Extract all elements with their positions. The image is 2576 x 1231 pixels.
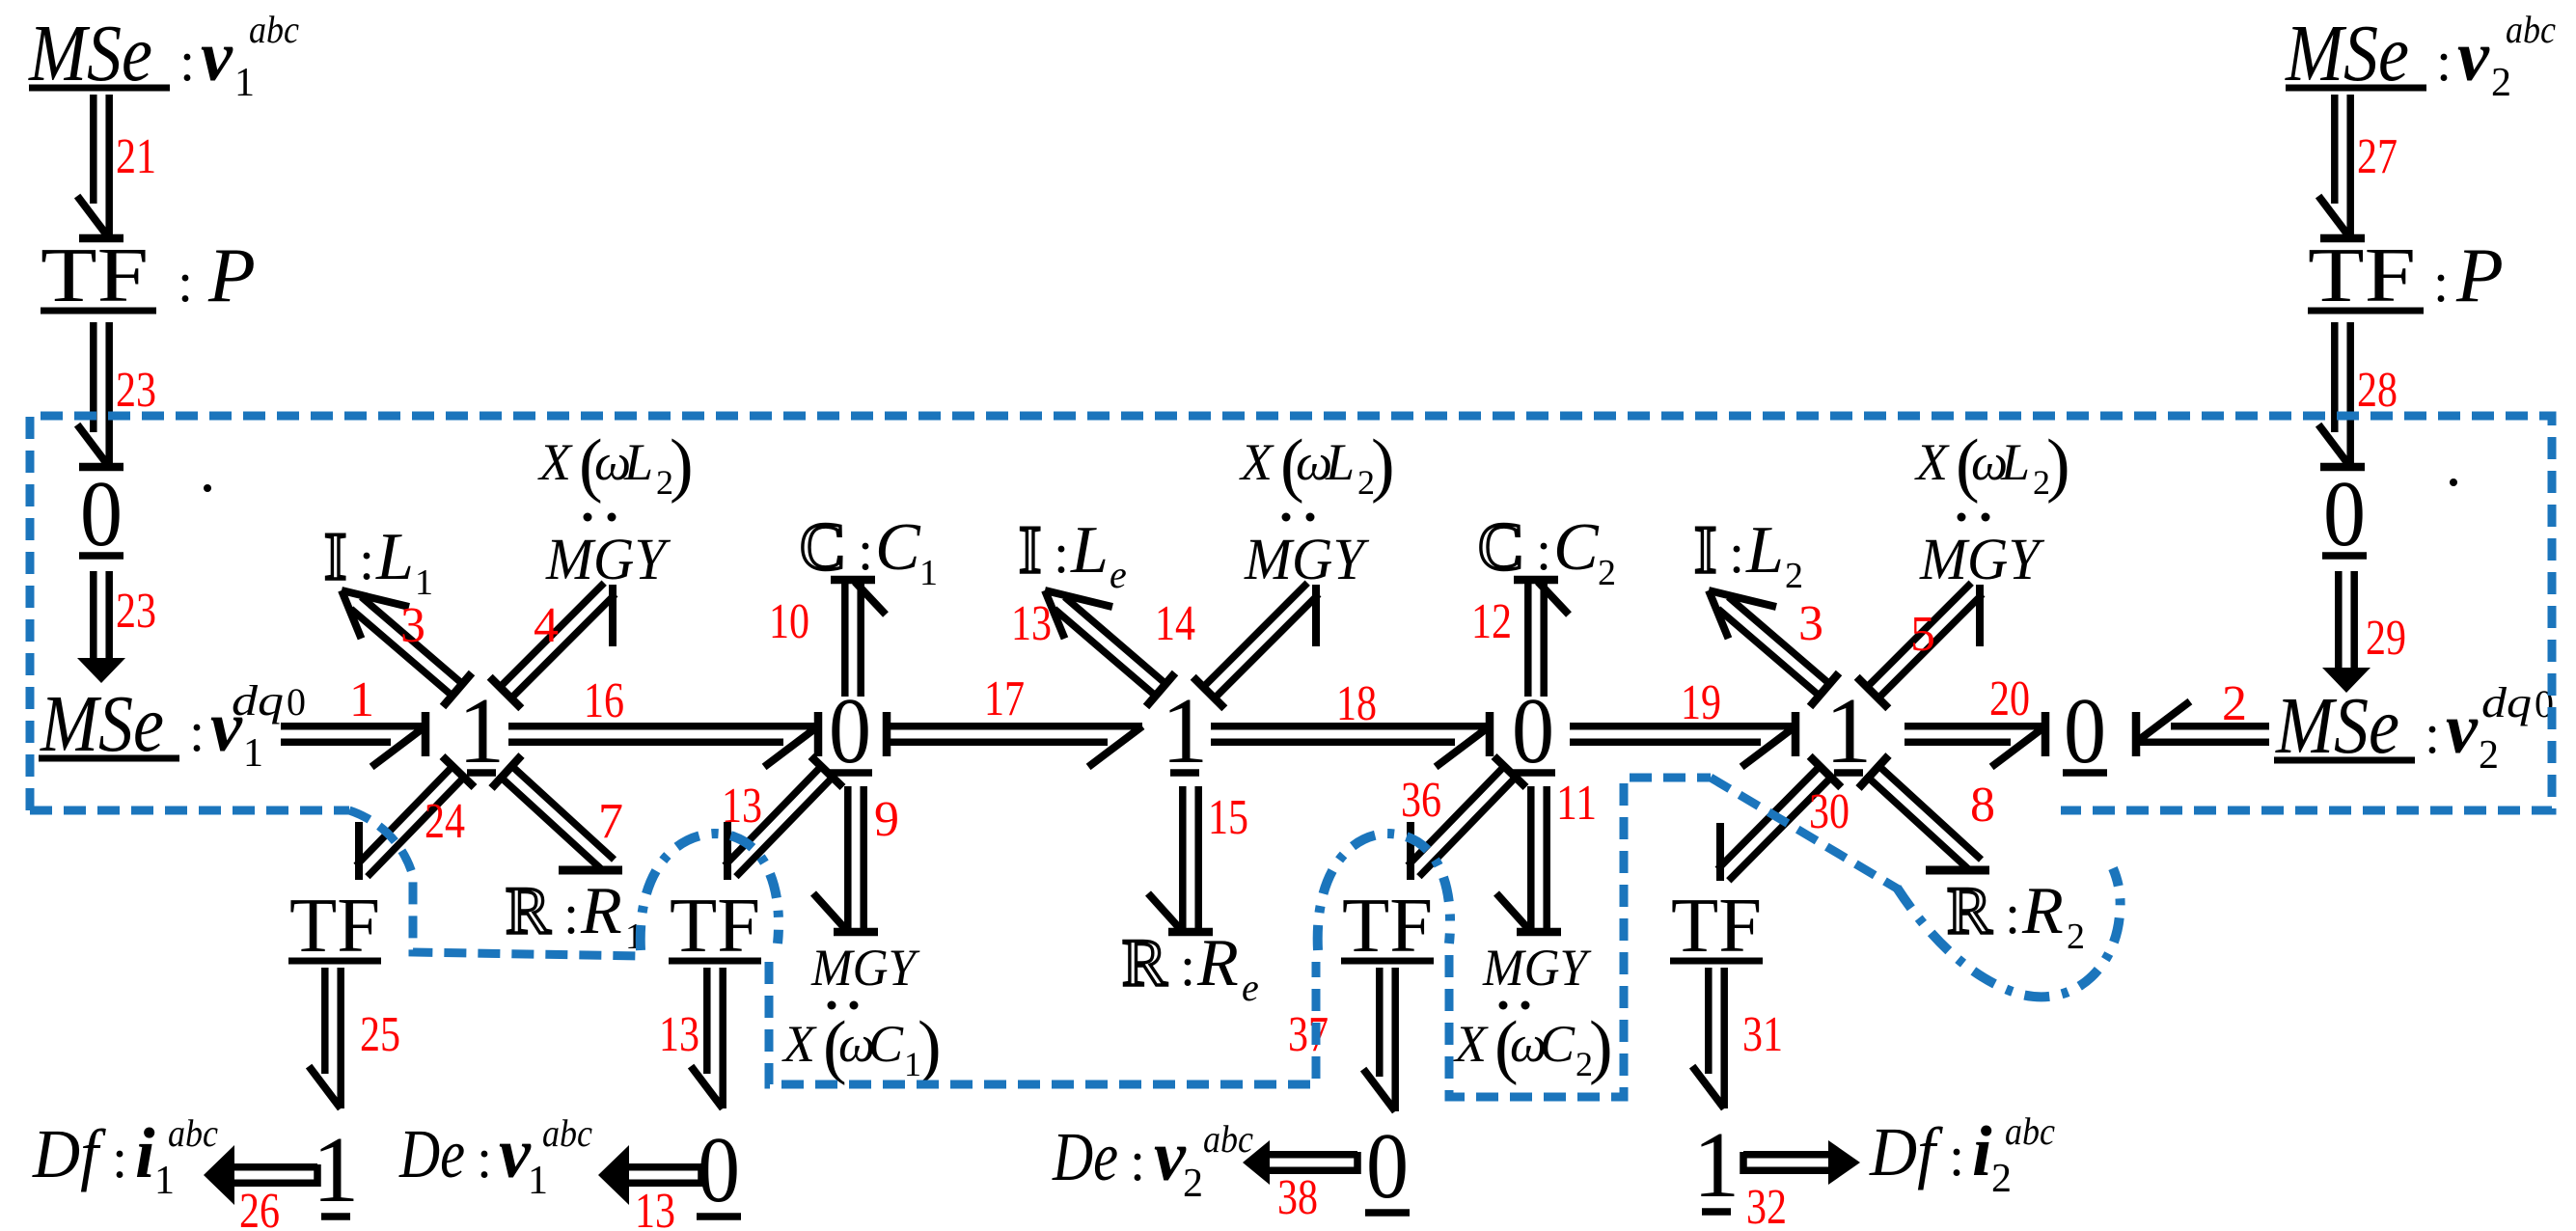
svg-text:MGY: MGY (1919, 528, 2045, 592)
svg-text:1: 1 (415, 562, 433, 603)
svg-text:1: 1 (1825, 679, 1873, 782)
svg-text:2: 2 (2067, 916, 2085, 957)
svg-text:1: 1 (1693, 1113, 1740, 1217)
svg-text:24: 24 (425, 794, 465, 849)
svg-text::: : (477, 1127, 492, 1190)
svg-text:27: 27 (2357, 129, 2398, 184)
svg-text:26: 26 (239, 1184, 280, 1231)
svg-text:0: 0 (287, 680, 306, 724)
svg-text:5: 5 (1910, 607, 1935, 662)
svg-text::: : (1054, 522, 1069, 585)
svg-text:): ) (2046, 425, 2070, 505)
svg-text:16: 16 (584, 673, 624, 728)
svg-text:1: 1 (243, 731, 263, 776)
svg-text:): ) (1371, 425, 1395, 505)
svg-text:TF: TF (670, 884, 760, 969)
svg-text:De: De (1052, 1118, 1118, 1195)
svg-text::: : (2425, 702, 2440, 765)
svg-text::: : (1536, 519, 1551, 582)
svg-text:23: 23 (116, 584, 156, 639)
svg-text:0: 0 (2323, 462, 2366, 565)
svg-text:8: 8 (1970, 778, 1995, 833)
svg-text:29: 29 (2366, 611, 2406, 666)
svg-text:Df: Df (32, 1115, 106, 1192)
svg-text:L: L (1070, 513, 1109, 588)
svg-text:L: L (375, 520, 414, 594)
svg-text:31: 31 (1742, 1007, 1783, 1062)
svg-text::: : (1729, 522, 1744, 585)
svg-text:L: L (623, 433, 653, 491)
svg-text:TF: TF (1342, 884, 1433, 969)
svg-text:3: 3 (400, 598, 425, 653)
svg-text:36: 36 (1401, 773, 1441, 828)
svg-text:I: I (1694, 513, 1716, 588)
svg-text:v: v (499, 1114, 532, 1193)
svg-text:abc: abc (249, 8, 299, 51)
svg-text::: : (2433, 251, 2449, 314)
svg-text:19: 19 (1681, 675, 1721, 730)
svg-text:14: 14 (1155, 596, 1195, 651)
svg-text:2: 2 (1785, 556, 1803, 596)
svg-text:15: 15 (1208, 790, 1248, 845)
svg-text:e: e (1110, 553, 1127, 596)
svg-text::: : (1130, 1130, 1145, 1192)
svg-text:MGY: MGY (1482, 939, 1592, 997)
svg-text:abc: abc (1203, 1117, 1253, 1161)
svg-text:L: L (2000, 433, 2030, 491)
svg-text:): ) (918, 1007, 942, 1086)
svg-text:0: 0 (2064, 679, 2106, 782)
svg-text:R: R (1122, 926, 1167, 1000)
svg-text:9: 9 (874, 792, 899, 847)
svg-text:MGY: MGY (810, 939, 920, 997)
svg-text:1: 1 (1162, 679, 1209, 782)
svg-text::: : (1949, 1125, 1964, 1188)
svg-text::: : (858, 519, 873, 582)
svg-text:30: 30 (1809, 784, 1850, 839)
svg-text::: : (359, 529, 374, 591)
svg-text:C: C (800, 510, 845, 585)
svg-text:i: i (135, 1114, 155, 1193)
svg-text:4: 4 (534, 598, 559, 653)
svg-text:2: 2 (1991, 1157, 2012, 1201)
svg-text:v: v (1154, 1117, 1187, 1196)
svg-text:abc: abc (2506, 8, 2556, 51)
svg-text:X: X (1453, 1015, 1489, 1073)
svg-text:2: 2 (2479, 733, 2499, 778)
svg-text::: : (2436, 30, 2452, 93)
svg-text:1: 1 (154, 1159, 175, 1203)
svg-text::: : (189, 700, 205, 763)
svg-text::: : (2005, 883, 2020, 945)
svg-text:1: 1 (528, 1159, 548, 1203)
svg-text:P: P (207, 233, 256, 318)
svg-text:17: 17 (984, 671, 1025, 726)
svg-text:L: L (1745, 513, 1784, 588)
svg-text:R: R (580, 874, 622, 948)
svg-text:v: v (201, 17, 233, 96)
svg-text:7: 7 (598, 794, 623, 849)
svg-text:v: v (2446, 690, 2479, 769)
svg-text:X: X (781, 1015, 817, 1073)
svg-text:dq: dq (232, 677, 284, 725)
svg-text:R: R (1947, 874, 1992, 948)
svg-text:18: 18 (1336, 676, 1377, 731)
svg-text:I: I (1019, 513, 1041, 588)
svg-text:1: 1 (919, 553, 938, 593)
svg-text:): ) (670, 425, 694, 505)
svg-text:TF: TF (41, 233, 149, 318)
svg-text:): ) (1589, 1007, 1613, 1086)
svg-text:20: 20 (1989, 671, 2030, 726)
svg-text:0: 0 (80, 462, 123, 565)
svg-text:Df: Df (1869, 1113, 1943, 1190)
svg-text:C: C (1540, 1015, 1576, 1073)
svg-text:38: 38 (1277, 1170, 1318, 1225)
svg-text:2: 2 (1183, 1162, 1203, 1206)
svg-text:C: C (875, 510, 921, 585)
svg-text:e: e (1242, 966, 1259, 1009)
svg-text:12: 12 (1471, 594, 1512, 649)
svg-text:1: 1 (349, 672, 374, 727)
svg-text:MGY: MGY (545, 528, 671, 592)
svg-text::: : (179, 30, 195, 93)
svg-text:0: 0 (1512, 679, 1554, 782)
svg-text:L: L (1325, 433, 1355, 491)
svg-text:0: 0 (829, 679, 871, 782)
svg-text::: : (112, 1127, 127, 1190)
svg-text:TF: TF (2308, 233, 2416, 318)
svg-text:I: I (324, 520, 346, 594)
svg-text:11: 11 (1556, 776, 1597, 831)
svg-text:1: 1 (458, 679, 506, 782)
svg-text::: : (1180, 935, 1195, 998)
svg-text:28: 28 (2357, 363, 2398, 418)
svg-text:abc: abc (168, 1111, 218, 1155)
svg-text:i: i (1972, 1112, 1992, 1191)
svg-text:De: De (398, 1115, 465, 1192)
svg-text:2: 2 (1598, 553, 1616, 593)
svg-text:0: 0 (1366, 1114, 1409, 1217)
svg-text:R: R (1196, 926, 1239, 1000)
svg-text:3: 3 (1798, 596, 1823, 651)
svg-text:MGY: MGY (1244, 528, 1370, 592)
svg-text:13: 13 (659, 1007, 699, 1062)
svg-text:2: 2 (2222, 676, 2247, 731)
svg-text::: : (178, 251, 193, 314)
svg-text:13: 13 (722, 779, 762, 834)
svg-text:X: X (537, 433, 573, 491)
svg-text:13: 13 (1011, 596, 1052, 651)
svg-text:dq: dq (2481, 679, 2532, 726)
svg-text:C: C (1553, 510, 1600, 585)
svg-text:abc: abc (542, 1111, 592, 1155)
svg-text:25: 25 (360, 1007, 400, 1062)
svg-text::: : (563, 883, 579, 945)
svg-text:TF: TF (1671, 884, 1762, 969)
svg-text:23: 23 (116, 363, 156, 418)
svg-text:10: 10 (769, 594, 809, 649)
svg-text:R: R (506, 874, 551, 948)
svg-text:abc: abc (2005, 1109, 2055, 1153)
svg-text:C: C (1478, 510, 1523, 585)
svg-text:X: X (1914, 433, 1950, 491)
svg-text:1: 1 (234, 61, 255, 105)
svg-text:R: R (2021, 874, 2064, 948)
svg-text:v: v (2457, 17, 2490, 96)
svg-text:13: 13 (635, 1184, 675, 1231)
svg-text:2: 2 (2491, 61, 2511, 105)
svg-text:32: 32 (1746, 1180, 1787, 1231)
svg-text:TF: TF (289, 884, 380, 969)
svg-text:37: 37 (1288, 1007, 1329, 1062)
svg-text:C: C (868, 1015, 904, 1073)
svg-text:X: X (1239, 433, 1274, 491)
svg-text:P: P (2455, 233, 2504, 318)
svg-text:21: 21 (116, 129, 156, 184)
